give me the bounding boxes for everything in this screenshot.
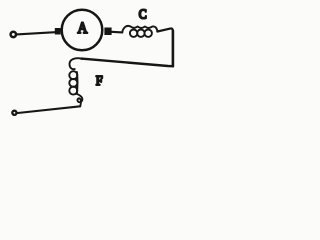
svg-text:A: A xyxy=(78,20,88,37)
terminal bottom-left xyxy=(12,111,16,115)
wire right brush to coil C xyxy=(112,31,123,34)
wire F coil to bottom terminal xyxy=(18,106,80,113)
wire terminal to left brush xyxy=(17,32,56,34)
svg-text:F: F xyxy=(96,74,103,89)
wire right vertical xyxy=(172,31,175,66)
svg-text:C: C xyxy=(139,8,147,23)
terminal top-left xyxy=(11,32,16,37)
field coil F (shunt winding) xyxy=(69,58,82,106)
armature A (machine circle) xyxy=(62,10,103,51)
coil C (series winding) xyxy=(122,26,157,37)
wire bottom bus right corner to F coil xyxy=(81,59,173,67)
brush left (armature) xyxy=(55,28,61,35)
brush right (armature) xyxy=(104,28,111,36)
wire coil C to top-right corner xyxy=(157,28,173,31)
